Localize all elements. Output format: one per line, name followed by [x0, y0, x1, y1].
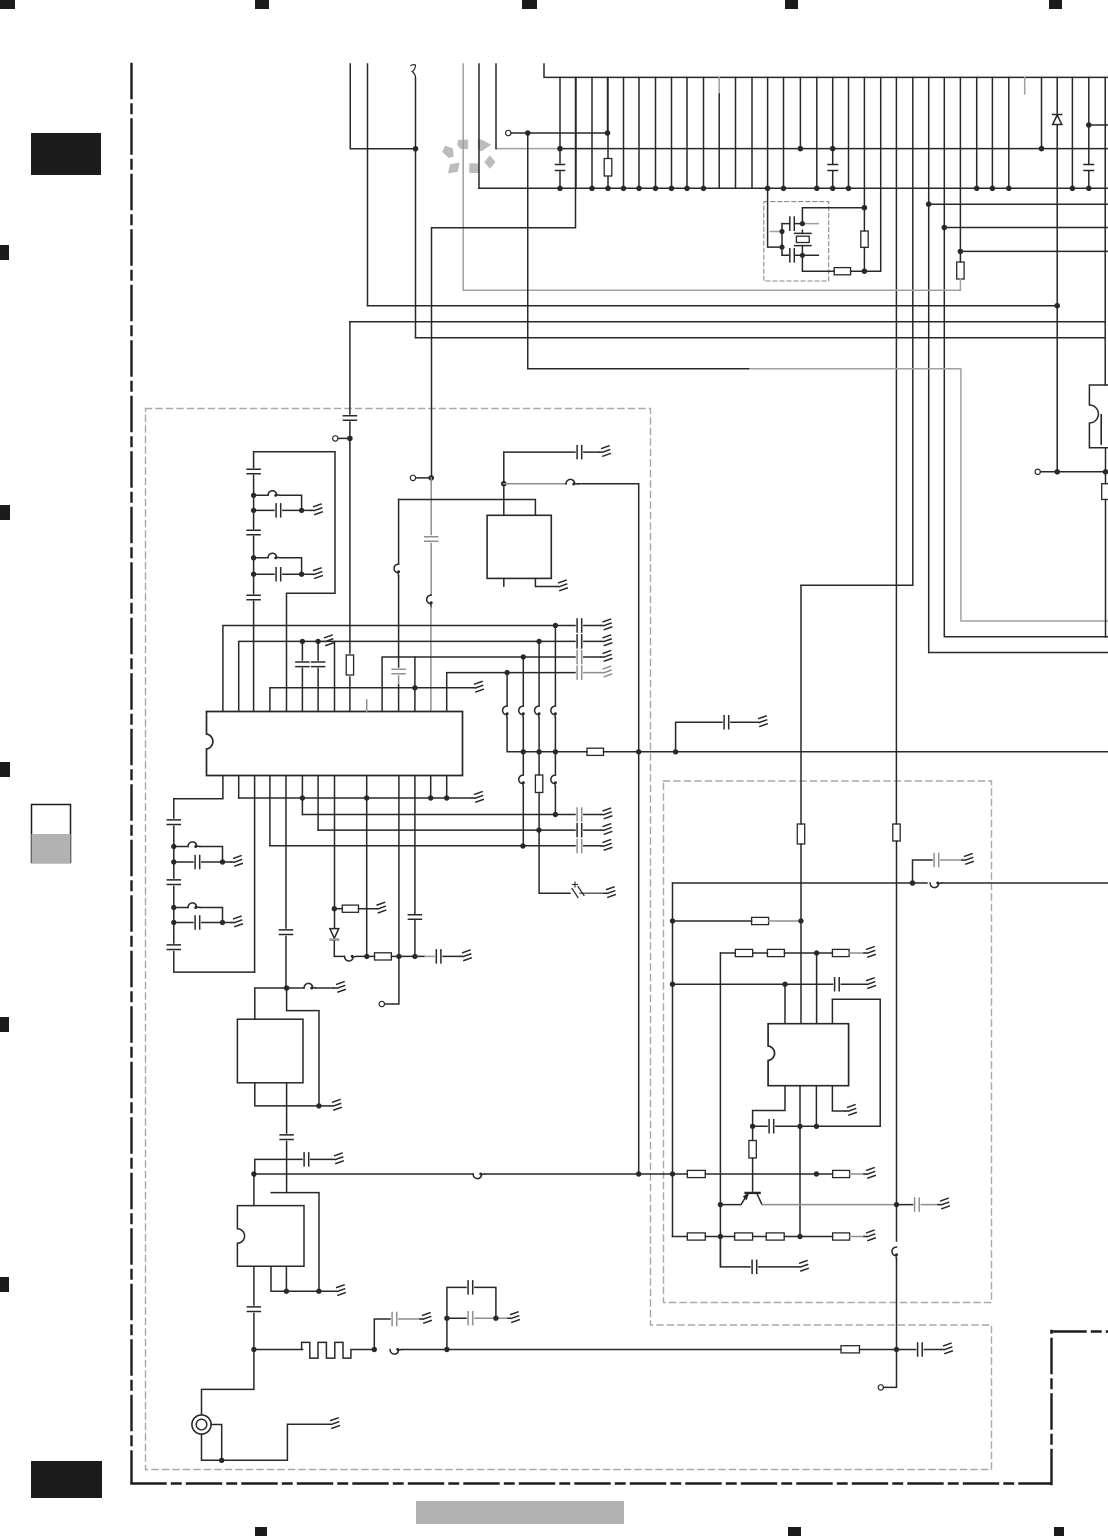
bus drop grey stub	[1024, 77, 1026, 94]
wire y125 to page edge	[1089, 124, 1108, 126]
pin x414.9 with capacitor	[414, 776, 416, 957]
pin x334.5 down to node	[334, 776, 336, 929]
row y846 with capacitor + ground	[270, 845, 601, 847]
wire into IF module group	[255, 988, 287, 1019]
IC2 bottom pins	[753, 1086, 785, 1127]
diode D1	[1053, 115, 1062, 125]
grey stub left of rail	[770, 231, 782, 233]
diode D (vertical on x334.3)	[330, 929, 339, 939]
bus drop wires to row B	[560, 77, 1072, 271]
LC trap 3 : inductor	[174, 847, 223, 863]
row y814.5 with capacitor + ground	[302, 814, 600, 816]
ground (LC trap 2)	[311, 568, 322, 578]
ground (LC trap 1)	[311, 504, 322, 514]
row y625.5	[223, 626, 601, 712]
stub up to grey cap + ground	[913, 860, 933, 883]
bus drop x1105.2 down to module	[1104, 77, 1106, 385]
node dots y471.8	[1054, 469, 1108, 475]
stub right bottom	[802, 254, 818, 256]
grey stub right top	[802, 223, 818, 225]
lower LC loop rail x173.8	[174, 799, 255, 972]
grey spinner icon	[442, 139, 495, 173]
registration mark left 5	[0, 1277, 9, 1292]
module M3 offset outline	[271, 1193, 319, 1292]
wire x350.25 from top	[349, 64, 351, 149]
grey riser x398.6 with inductor and capacitor to IC pin	[398, 500, 400, 565]
bus drop x944.3	[943, 77, 945, 636]
long node row y751.8	[508, 751, 1108, 753]
resistor R (crystal output)	[834, 268, 850, 275]
node row B (y188.3)	[479, 187, 1108, 189]
bus drop x912.8 stepping left to x801	[801, 77, 913, 824]
registration mark left 1	[0, 245, 9, 260]
capacitor C (rail, 1)	[247, 469, 260, 474]
IC2 top pins	[785, 953, 832, 1024]
row y687.8	[270, 688, 472, 712]
decoupling caps on pins x302.4 x318.1	[302, 641, 318, 711]
pin x366.7 grey stub	[366, 700, 368, 712]
registration mark left 3	[0, 762, 10, 777]
wire x367.5 from top	[367, 64, 369, 306]
capacitor C (on drop x832.7)	[828, 165, 838, 171]
M2 bottom left pin to ground row	[255, 1083, 319, 1106]
row y830.1 with capacitor + ground	[318, 829, 600, 831]
wire y585.2 step	[801, 584, 913, 586]
junction dots top rows	[525, 122, 1092, 308]
net x431 down: grey capacitor + inductor to IC pin	[430, 478, 432, 595]
registration mark top 3	[522, 0, 537, 9]
row y1126.3 with capacitor	[753, 1125, 881, 1127]
stub x720.4 down to capacitor + ground	[720, 1237, 797, 1267]
resistor R (x801)	[797, 824, 804, 844]
LC trap 4 : inductor	[174, 908, 223, 923]
row y1236.5 (resistor ladder)	[673, 1236, 688, 1238]
grey net y290.3	[463, 289, 960, 291]
LC trap 3 : capacitor + ground	[174, 861, 231, 863]
M2 centre pin down with capacitor	[286, 1083, 288, 1193]
module M2 main box	[237, 1019, 303, 1083]
wire row y1349.5 left	[254, 1349, 303, 1351]
bus drop x832.7 with capacitor	[832, 77, 834, 188]
wire row y321.8	[350, 321, 1105, 323]
node dot (415.5,148.75)	[413, 146, 419, 152]
wire x802.4 top to node row	[802, 208, 864, 224]
wire row y227.5 (right)	[944, 227, 1108, 229]
bus drop x960.3 with resistor to grey net	[959, 77, 961, 262]
capacitor + ground (row 956.4)	[425, 955, 434, 957]
wire row y636.8	[946, 636, 1108, 638]
IC1 bottom pins	[174, 776, 223, 799]
capacitor C (on drop x560 between rows)	[556, 165, 565, 171]
wire x1105.2 into U3 top (drawn above) ; wire U3 bottom to node	[1105, 448, 1107, 472]
wire x802.4 through crystal	[801, 230, 803, 255]
ground (M1)	[556, 580, 567, 590]
junction dots crystal	[779, 221, 805, 258]
M3 bottom pins to ground row y1291.2	[271, 1266, 334, 1291]
M1 bottom stubs	[504, 578, 556, 586]
wire x349.9 down with series capacitor	[349, 322, 351, 712]
LC trap 2 : capacitor C	[254, 573, 311, 575]
registration mark left 2	[0, 505, 10, 520]
stub down to open terminal	[884, 1350, 897, 1388]
capacitor C (rail, 2)	[247, 530, 260, 535]
bus drop x896.4 (long rail down to AF section)	[895, 77, 897, 824]
row y672.6	[447, 673, 575, 712]
pin x398.8 down to open terminal	[385, 776, 399, 1005]
registration mark top 5	[1049, 0, 1062, 9]
row continues right	[447, 1349, 841, 1351]
node dots row y751.8	[521, 749, 679, 754]
antenna filter frame (upper)	[254, 452, 335, 712]
dashed box around crystal X1	[764, 202, 829, 281]
open terminal o- at (413,477.9)	[410, 475, 415, 480]
wire to output resistor	[802, 255, 834, 271]
wire row y652.5	[929, 652, 1108, 654]
resistor R (on drop x608)	[604, 159, 612, 177]
wire row y148.75 (left segment)	[350, 148, 415, 150]
dashed block boundary (tuner section, outer)	[146, 409, 992, 1470]
wire x496 from top	[495, 64, 497, 149]
grey title bar bottom centre	[416, 1501, 624, 1524]
node row y883	[673, 882, 928, 884]
bus drop x767.6 into crystal box	[768, 77, 782, 247]
capacitor C (bottom load cap)	[782, 249, 802, 262]
node row A (y148.6)	[496, 148, 560, 150]
terminal row y471.8	[1041, 471, 1108, 473]
LC trap 1 : capacitor C	[254, 509, 311, 511]
open terminal o- at (334,438.4)	[333, 436, 338, 441]
node dot + stub up to grey cap + ground	[372, 1347, 377, 1352]
grey wire x463.2 from top	[462, 64, 464, 290]
wire from M1 top pin to node y452	[503, 452, 505, 515]
resistor R (right edge, below node)	[1105, 472, 1107, 637]
net from x527.75 via y368.8 to grey riser	[528, 368, 750, 370]
LC trap 2 : inductor L	[254, 558, 302, 574]
jack wiring	[202, 1350, 254, 1415]
node dots LC trap 1	[251, 493, 304, 514]
bus drop x1041.5	[1041, 77, 1043, 148]
resistor R (x752.6)	[752, 1126, 754, 1140]
resistor R (row 751.8)	[587, 748, 604, 755]
inductor on row	[390, 1349, 402, 1354]
resistor R (x350)	[346, 655, 353, 675]
parallel capacitor pair between x446.9 and x495.9	[444, 1347, 449, 1352]
ground stub on row 641	[322, 635, 333, 645]
wire x415.6 from top (with flex squiggle)	[411, 65, 416, 78]
wire x720.4 down to transistor base	[719, 953, 721, 1267]
bus drop x607.5	[607, 77, 609, 133]
row y953 with two resistors	[720, 952, 735, 954]
wire row y337.8	[416, 337, 1105, 339]
page tab black top-left	[31, 133, 101, 175]
wire y452 to capacitor + ground	[504, 451, 599, 453]
bus drop x928.7	[928, 77, 930, 652]
transistor Q1	[746, 1192, 760, 1194]
registration mark top 4	[785, 0, 798, 9]
left rail x253.6 with series capacitors	[253, 452, 255, 712]
resistor R (audio row right)	[841, 1346, 860, 1353]
wire row y204.2	[929, 203, 1108, 205]
bus drop x800.4	[799, 77, 801, 148]
collector net grey to x896.5 + cap + ground	[762, 1204, 897, 1206]
M3 top pins	[253, 1174, 255, 1206]
capacitor C (x350)	[343, 416, 356, 421]
resistor to ground (row y953)	[832, 949, 849, 956]
registration mark top 2	[255, 0, 269, 9]
M3 left pin down with capacitor to audio row	[253, 1266, 255, 1349]
wire x479 from top	[478, 64, 480, 188]
registration mark bottom 2	[788, 1527, 801, 1536]
legend swatch left (white/grey)	[32, 805, 71, 863]
registration mark bottom 1	[255, 1527, 267, 1536]
left rail x672.5	[672, 883, 674, 1237]
open terminal at (1037.5,471.8)	[1035, 469, 1040, 474]
bus drop x1088.8 with capacitor	[1088, 77, 1090, 188]
registration mark top 1	[0, 0, 15, 9]
pin x414.9	[414, 657, 416, 712]
LC trap 1 : inductor L	[254, 495, 302, 510]
bus drop with grey upper segment	[718, 77, 720, 94]
row y1174 inside PLL box (resistors to ground)	[673, 1173, 688, 1175]
LC trap 4 : capacitor + ground	[174, 922, 231, 924]
crystal X1	[795, 233, 811, 245]
crystal oscillator group	[770, 208, 881, 275]
wire y133 with terminal	[511, 132, 608, 134]
registration mark left 4	[0, 1017, 9, 1032]
resistor R (x896.5)	[893, 824, 900, 841]
node dots LC trap 2	[251, 555, 304, 577]
bus drop x864.3 with series resistor	[863, 77, 865, 271]
open terminal at (508,133)	[506, 130, 511, 135]
wire x527.75	[527, 133, 529, 369]
resistor R (row 956.4)	[375, 953, 392, 960]
wire row y251.4	[960, 250, 1108, 252]
row y798	[239, 797, 472, 799]
module M3 main box	[237, 1206, 304, 1267]
dashed block boundary (PLL section, inner right)	[664, 781, 992, 1303]
row y921 with resistor	[673, 920, 752, 922]
stub from row751.8 up to capacitor + ground	[676, 722, 756, 752]
resistor R (on x864.4)	[861, 231, 868, 247]
registration mark bottom 3	[1054, 1527, 1064, 1536]
row y641.4	[239, 641, 601, 711]
jack shield wiring to ground	[211, 1425, 222, 1461]
capacitor C (top load cap)	[782, 217, 802, 230]
bus drop x1057.2 with diode D	[1056, 77, 1058, 471]
capacitor + ground right of node	[897, 1349, 942, 1351]
stub row y1159.4 cap + ground	[255, 1159, 332, 1176]
coil/resistor chains below row 751.8	[522, 752, 524, 775]
VCO module M1	[487, 515, 551, 578]
main supply bus (top)	[544, 64, 1108, 77]
pin x334.5	[334, 641, 336, 711]
resistor R to ground (node 908.7)	[334, 908, 342, 910]
inductor L to node row 956.4	[334, 955, 344, 957]
choke to ground at node (286.6,988)	[287, 987, 304, 989]
electrolytic cap + ground at y893	[572, 887, 604, 898]
row y657	[382, 657, 600, 712]
row y984.2 with capacitor + ground	[673, 983, 865, 985]
capacitor C (rail, 3)	[247, 595, 260, 600]
IC2 (PLL IC)	[768, 1024, 849, 1086]
ceramic filter (square-wave symbol)	[302, 1342, 375, 1358]
page tab black bottom-left	[31, 1461, 102, 1498]
IF coil ladder x507-x555	[506, 673, 508, 706]
net from M1 pin y483.7 grey to inductor then x638.7 rail	[504, 483, 566, 485]
module U3 (cropped at right page edge)	[1089, 385, 1108, 448]
rail x782 inside crystal box	[781, 224, 783, 256]
node dots above IC1	[300, 623, 558, 691]
wire row y305.7	[368, 305, 1058, 307]
phono jack J1	[192, 1415, 211, 1434]
module M2 outline (offset box)	[287, 1011, 319, 1106]
wire step y227.75 x431.5-x575.5	[432, 77, 576, 478]
long AF node row y1174	[254, 1173, 473, 1175]
feedback loop wire around IC2	[832, 999, 880, 1126]
wire y499.5 into M1 second top pin	[399, 500, 536, 516]
pin-1 bar inside U3	[1100, 415, 1102, 444]
